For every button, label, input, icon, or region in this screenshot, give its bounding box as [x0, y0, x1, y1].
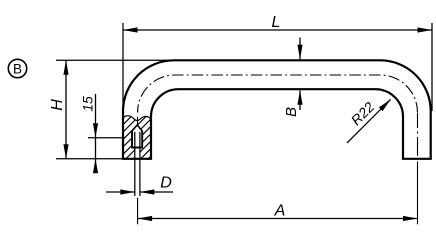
svg-text:B: B: [13, 62, 22, 77]
dimension D left line: [106, 191, 135, 193]
svg-text:15: 15: [80, 96, 96, 112]
handle inner contour: [151, 89, 403, 159]
dimension L left arrowhead: [123, 27, 138, 32]
dimension A left arrowhead: [138, 216, 153, 221]
dimension D left arrowhead: [120, 189, 135, 194]
dimension 15 line: [95, 94, 97, 159]
radius R22 arrowhead: [379, 99, 391, 111]
dimension A line: [138, 218, 418, 220]
dimension H bottom extension line: [56, 158, 122, 160]
tapped hole minor lines / D extension lines: [135, 132, 140, 196]
dimension D right arrowhead: [140, 189, 155, 194]
svg-text:D: D: [160, 175, 172, 192]
right leg centerline (dash-dot): [417, 113, 419, 224]
dimension B upper line: [299, 38, 301, 60]
tapped hole drill cone: [132, 125, 142, 131]
svg-text:L: L: [272, 14, 281, 31]
dimension L right extension line: [431, 23, 433, 111]
dimension 15 tick extension line: [88, 137, 125, 139]
left leg bottom face: [122, 158, 152, 160]
dimension B upper arrowhead: [297, 45, 302, 60]
left leg centerline below leg: [137, 198, 139, 225]
dimension 15 upper arrowhead: [93, 123, 98, 138]
dimension H top arrowhead: [63, 60, 68, 75]
tube centerline arc+horizontal (dash-dot): [138, 75, 418, 113]
dimension 15 lower arrowhead: [93, 159, 98, 174]
svg-text:R22: R22: [348, 99, 378, 129]
section hatching: [80, 106, 201, 160]
svg-text:H: H: [49, 99, 66, 111]
dimension B lower arrowhead: [297, 90, 302, 105]
break (wavy) line on left leg: [123, 116, 152, 121]
handle outer contour: [123, 60, 431, 159]
dimension H bottom arrowhead: [63, 144, 68, 159]
dimension D right line: [140, 191, 173, 193]
view label circled B: [8, 59, 26, 77]
dimension L line: [123, 29, 432, 31]
dimension L left extension line: [122, 23, 124, 111]
svg-text:B: B: [283, 107, 300, 117]
dimension 15 lower tail: [95, 159, 97, 171]
dimension A right arrowhead: [403, 216, 418, 221]
tapped hole major outline: [131, 131, 143, 148]
radius R22 leader line: [347, 100, 391, 144]
dimension H top extension line: [56, 59, 175, 61]
right leg bottom face: [402, 158, 432, 160]
dimension H line: [65, 60, 67, 159]
dimension B lower line: [299, 90, 301, 110]
left leg centerline dash above hole: [137, 110, 139, 124]
svg-text:A: A: [274, 203, 286, 220]
dimension L right arrowhead: [418, 27, 433, 32]
